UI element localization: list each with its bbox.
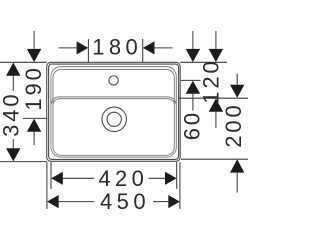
dim 420 right arrowhead bbox=[165, 172, 177, 185]
dim 120 top stub bbox=[215, 31, 217, 49]
dim 450 right tail bbox=[153, 201, 168, 203]
dim 180 right arrowhead bbox=[143, 41, 155, 54]
dim 180 right extension bbox=[142, 39, 144, 62]
dim 120 bottom stub bbox=[215, 112, 217, 128]
dim 190 top stub bbox=[33, 31, 35, 49]
dim 180 right tail bbox=[154, 47, 172, 49]
dim 420 left arrowhead bbox=[51, 172, 63, 185]
dim 340 bottom arrowhead bbox=[6, 148, 20, 161]
svg-text:60: 60 bbox=[179, 110, 204, 140]
svg-text:180: 180 bbox=[92, 35, 142, 60]
ledge lower line bbox=[53, 99, 174, 104]
dim 450 right arrowhead bbox=[168, 195, 180, 208]
dim 180 left arrowhead bbox=[77, 41, 89, 54]
dim 200 top stub bbox=[236, 74, 238, 85]
svg-text:120: 120 bbox=[199, 58, 224, 103]
ledge extension line bbox=[178, 97, 248, 99]
dim 180 left tail bbox=[59, 47, 77, 49]
dim 190 bottom arrowhead bbox=[27, 119, 41, 132]
dim 60 top stub bbox=[192, 31, 194, 49]
front edge extension line left bbox=[0, 161, 47, 163]
dim 420 left extension bbox=[50, 162, 52, 189]
ledge upper line bbox=[51, 97, 176, 104]
dim 60 mid stub bbox=[192, 94, 194, 111]
dim 420 right tail bbox=[149, 177, 166, 179]
dim 420 right extension bbox=[176, 162, 178, 189]
dim 120 bottom arrowhead bbox=[209, 99, 223, 112]
tap hole bbox=[109, 76, 118, 85]
drain centre extension line bbox=[23, 117, 48, 119]
drain inner circle bbox=[107, 112, 121, 126]
back edge extension line right bbox=[180, 61, 227, 63]
dim 340 bottom segment bbox=[12, 139, 14, 148]
front edge extension line right bbox=[181, 158, 248, 160]
dim 190 top arrowhead bbox=[27, 49, 41, 62]
basin outer outline bbox=[47, 62, 181, 161]
drain outer circle bbox=[102, 107, 127, 132]
dim 190 bottom stub bbox=[33, 132, 35, 145]
svg-text:190: 190 bbox=[21, 65, 46, 110]
dim 60 bottom arrowhead bbox=[186, 81, 200, 94]
dim 180 left extension bbox=[87, 39, 89, 62]
dim 340 top segment bbox=[12, 76, 14, 91]
svg-text:340: 340 bbox=[0, 91, 23, 136]
dim 200 bottom stub bbox=[236, 173, 238, 193]
back edge extension line left bbox=[0, 61, 47, 63]
dim 450 right extension bbox=[179, 162, 181, 209]
dim 420 left tail bbox=[63, 177, 94, 179]
inner opening inner contour bbox=[53, 69, 174, 155]
svg-text:450: 450 bbox=[100, 189, 150, 214]
basin rim line bbox=[49, 64, 179, 159]
dim 450 left tail bbox=[59, 201, 95, 203]
dim 200 top arrowhead bbox=[230, 85, 244, 98]
dim 450 left arrowhead bbox=[47, 195, 59, 208]
dim 340 top arrowhead bbox=[6, 63, 20, 76]
dim 450 left extension bbox=[46, 162, 48, 209]
dim 60 top arrowhead bbox=[186, 49, 200, 62]
svg-text:200: 200 bbox=[221, 102, 246, 147]
inner opening outer contour bbox=[51, 67, 176, 158]
dim 120 top arrowhead bbox=[209, 49, 223, 62]
dim 200 bottom arrowhead bbox=[230, 159, 244, 172]
tap hole extension line bbox=[181, 79, 201, 81]
svg-text:420: 420 bbox=[98, 166, 148, 191]
